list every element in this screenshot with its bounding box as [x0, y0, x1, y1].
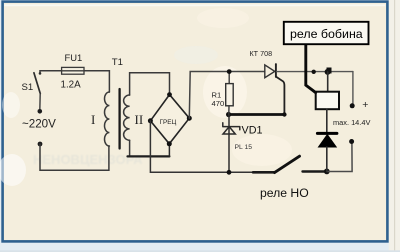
node: rail junction at R1	[227, 69, 232, 74]
transistor KT708 base bar	[275, 64, 277, 77]
node: AC input terminal top	[38, 109, 43, 114]
zener diode VD1 cathode bar	[223, 123, 240, 130]
transformer T1 core	[118, 89, 120, 149]
svg-text:II: II	[135, 112, 144, 127]
svg-text:+: +	[362, 99, 368, 111]
node: minus output terminal	[349, 139, 354, 144]
wire: secondary bottom to bridge bottom vertex	[128, 155, 170, 157]
wire: base node to zener node (thick)	[229, 113, 285, 116]
svg-text:реле НО: реле НО	[260, 186, 309, 200]
wire: bottom rail to minus terminal	[327, 142, 352, 172]
wire: KT708 collector to right	[277, 71, 353, 73]
wire: switch top to fuse to transformer primary top	[40, 71, 109, 92]
wire: secondary bottom lead	[129, 140, 131, 156]
transformer T1 primary winding I	[105, 92, 110, 146]
svg-text:реле бобина: реле бобина	[290, 27, 363, 41]
svg-text:VD1: VD1	[242, 125, 263, 137]
node: R1/VD1 junction	[226, 112, 231, 117]
wire: lower input terminal to transformer primary bottom	[40, 144, 109, 170]
wire: bridge minus output down to bottom rail	[150, 121, 253, 173]
node: VD1 anode on bottom rail	[227, 170, 232, 175]
node: plus output terminal	[350, 103, 355, 108]
node: flyback diode anode junction	[324, 169, 330, 175]
fuse FU1	[62, 67, 84, 74]
svg-text:ГРЕЦ: ГРЕЦ	[160, 119, 177, 126]
node: bridge right vertex	[187, 116, 192, 121]
wire: KT708 base lead down	[276, 77, 284, 115]
zener diode VD1 lead	[228, 115, 230, 173]
transistor KT708 emitter triangle	[265, 65, 275, 78]
flyback diode triangle	[319, 135, 337, 147]
node: AC input terminal bottom	[38, 142, 43, 147]
wire: relay coil bottom to flyback diode	[326, 109, 328, 133]
wire: R1 bottom lead	[228, 106, 230, 115]
wire: tap down to relay coil	[327, 72, 329, 92]
svg-text:max. 14.4V: max. 14.4V	[333, 118, 370, 127]
svg-text:КТ 708: КТ 708	[250, 49, 273, 58]
svg-text:S1: S1	[22, 82, 34, 93]
node: bridge top vertex	[167, 92, 172, 97]
resistor R1	[226, 84, 234, 106]
paper smudges	[0, 4, 385, 186]
zener diode VD1 triangle	[223, 127, 235, 134]
relay coil	[316, 92, 339, 110]
flyback diode cathode bar	[317, 132, 337, 135]
node: relay coil top tap	[325, 69, 331, 75]
svg-text:~220V: ~220V	[22, 118, 56, 131]
wire: top rail corner down to plus terminal	[352, 72, 354, 106]
wire: flyback diode anode down	[326, 147, 328, 171]
svg-text:470: 470	[212, 99, 225, 108]
switch S1 top contact	[39, 72, 42, 75]
switch S1 blade	[34, 73, 40, 94]
transformer T1 secondary winding II	[124, 95, 130, 140]
svg-text:I: I	[91, 112, 95, 127]
node: rail junction at label leader	[312, 70, 316, 74]
node: bridge left vertex	[148, 118, 153, 123]
wire: R1 top lead from rail	[228, 72, 230, 84]
label box: реле бобина	[284, 22, 369, 44]
wire: switch to input terminal	[39, 94, 41, 112]
relay NO switch blade	[275, 156, 300, 172]
bridge rectifier diamond	[150, 95, 189, 144]
svg-text:1.2A: 1.2A	[61, 79, 82, 90]
label leader line from relay coil box	[306, 44, 316, 92]
svg-text:T1: T1	[112, 57, 123, 68]
node: bridge bottom vertex	[167, 141, 172, 146]
wire: bottom rail after relay contact	[303, 170, 327, 172]
wire: bridge plus output up to top rail	[189, 72, 264, 119]
svg-text:FU1: FU1	[65, 52, 83, 63]
wire: bottom rail to relay contact	[253, 171, 275, 174]
svg-text:PL 15: PL 15	[235, 144, 253, 151]
node: base wire right end	[282, 112, 286, 116]
wire: secondary top lead to bridge top vertex	[130, 73, 170, 95]
svg-text:НЕНОВЦЕНЗОРА: НЕНОВЦЕНЗОРА	[33, 152, 143, 167]
